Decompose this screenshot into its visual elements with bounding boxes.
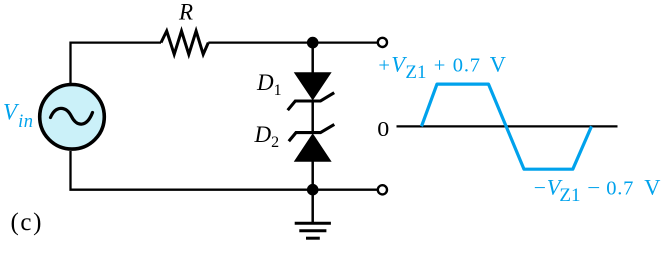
zener diode D1 (triangle) <box>295 73 331 100</box>
wire: top junction down to D1 <box>311 43 314 74</box>
terminal: bottom output (open circle) <box>378 185 387 194</box>
wire: D2 to bottom junction <box>311 160 314 189</box>
svg-text:D1: D1 <box>256 70 282 99</box>
output waveform (clipped sine) <box>422 84 592 169</box>
node: top junction <box>307 37 319 49</box>
wire: source top to resistor <box>71 43 162 83</box>
svg-text:−VZ1−0.7V: −VZ1−0.7V <box>534 175 661 207</box>
svg-text:R: R <box>178 0 193 25</box>
AC source V_in <box>40 85 105 150</box>
zener diode D1 (cathode bar with bent ends) <box>288 93 335 111</box>
svg-text:+VZ1+0.7V: +VZ1+0.7V <box>378 51 506 83</box>
waveform axis <box>397 125 618 127</box>
wire: between D1 and D2 <box>311 101 314 133</box>
terminal: top output (open circle) <box>378 38 387 47</box>
node: bottom junction <box>307 184 319 196</box>
resistor R <box>161 31 208 54</box>
zener diode D2 (triangle) <box>295 134 331 161</box>
wire: source bottom to bottom rail and to bottom terminal <box>71 151 378 190</box>
wire: resistor to top output terminal <box>208 41 377 43</box>
svg-text:D2: D2 <box>254 122 280 151</box>
svg-text:0: 0 <box>377 117 389 141</box>
sine symbol inside source <box>51 108 93 124</box>
svg-text:Vin: Vin <box>3 100 33 133</box>
svg-text:(c): (c) <box>11 209 44 236</box>
zener diode D2 (cathode bar with bent ends) <box>289 124 335 141</box>
ground <box>311 190 314 222</box>
